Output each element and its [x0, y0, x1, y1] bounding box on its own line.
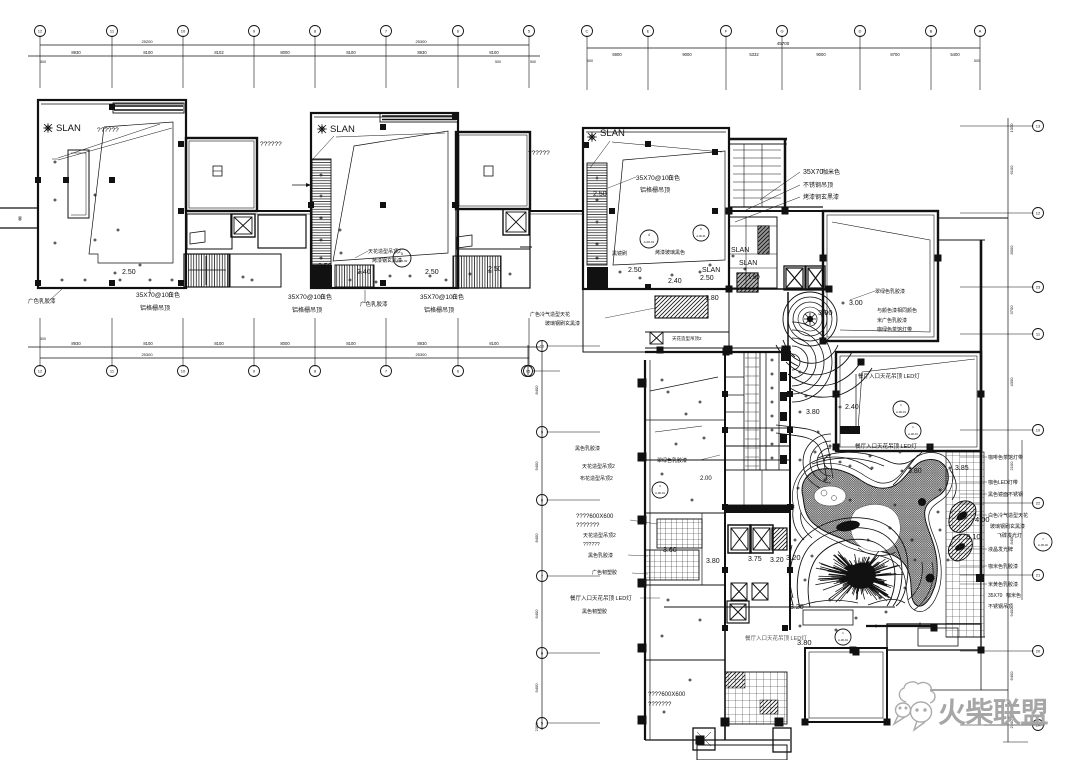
wing top room slant: [650, 377, 718, 391]
svg-text:A-06-01: A-06-01: [908, 432, 918, 436]
svg-text:广色韧塑胶: 广色韧塑胶: [592, 569, 617, 576]
plan3 left hatch strip: [587, 163, 607, 265]
svg-text:8930: 8930: [71, 341, 81, 346]
svg-text:餐厅入口天花吊顶 LED灯: 餐厅入口天花吊顶 LED灯: [855, 442, 917, 450]
right column bubble y126: [1033, 121, 1044, 132]
svg-text:B: B: [930, 29, 933, 34]
dark hatch slim rect: [758, 226, 769, 254]
svg-text:8000: 8000: [1009, 245, 1014, 255]
svg-text:3.00: 3.00: [818, 308, 833, 317]
leaf ornaments right: [948, 501, 975, 561]
svg-text:火柴联盟: 火柴联盟: [938, 697, 1049, 728]
svg-text:白色冷气造型天花: 白色冷气造型天花: [988, 512, 1028, 519]
svg-text:500: 500: [974, 59, 980, 63]
R1 ceiling slant: [832, 222, 930, 332]
grid bubble bottom 6: [381, 366, 392, 377]
left column bubble y432: [537, 427, 548, 438]
transition rooms under plan3: [530, 289, 791, 355]
grid bubble topright 6: [926, 26, 937, 37]
plan3 black base: [587, 267, 608, 289]
plan2 ceiling polygon: [333, 131, 448, 261]
svg-text:6400: 6400: [1009, 671, 1014, 681]
svg-text:2.40: 2.40: [668, 278, 682, 285]
svg-text:??????: ??????: [260, 141, 282, 148]
corridor rooms: [729, 144, 785, 207]
svg-text:2100: 2100: [1009, 461, 1014, 471]
R2 columns: [833, 391, 840, 398]
svg-text:3.80: 3.80: [806, 409, 820, 416]
svg-text:8930: 8930: [71, 50, 81, 55]
contours below starburst: [800, 600, 858, 606]
svg-text:铝格栅吊顶: 铝格栅吊顶: [140, 304, 170, 312]
plan2 bottom hatch areas: [335, 265, 374, 287]
svg-text:黑镜刷: 黑镜刷: [612, 250, 627, 257]
channel black columns: [781, 349, 790, 361]
svg-text:500: 500: [495, 60, 501, 64]
svg-text:5: 5: [401, 252, 403, 256]
svg-text:咖米色: 咖米色: [1006, 592, 1021, 599]
wiggle left of horseshoe: [789, 545, 793, 598]
room R1 top-right: [735, 168, 1008, 366]
svg-text:A-06-01: A-06-01: [644, 240, 655, 244]
svg-text:8100: 8100: [346, 50, 356, 55]
grid bubble topright 1: [582, 26, 593, 37]
contour bands along blob top gap: [812, 458, 884, 466]
plan1 left stub: [0, 207, 38, 209]
svg-text:液晶发光牌: 液晶发光牌: [988, 546, 1013, 553]
right column bubble y430: [1033, 425, 1044, 436]
grid bubble bottom 8: [524, 366, 535, 377]
plan2 SLAN: [317, 124, 327, 134]
lower elevator boxes: [731, 583, 747, 600]
left wing sprinklers: [666, 390, 670, 394]
bottom-right rooms: [664, 607, 985, 726]
dark band: [725, 505, 790, 513]
grid bubble top 5: [310, 26, 321, 37]
right annotation labels: [960, 454, 1052, 610]
svg-text:A-06-01: A-06-01: [896, 410, 906, 414]
svg-text:3.75: 3.75: [748, 556, 762, 563]
svg-text:2.50: 2.50: [593, 191, 607, 198]
blob inner light patch: [814, 486, 846, 506]
svg-text:???????: ???????: [576, 523, 600, 529]
svg-text:A-06-01: A-06-01: [696, 234, 706, 238]
plan3 columns: [583, 142, 589, 148]
svg-text:铝格栅吊顶: 铝格栅吊顶: [292, 306, 322, 314]
svg-text:20: 20: [1036, 649, 1041, 654]
grid bubble topright 4: [777, 26, 788, 37]
plan2 sprinklers: [338, 228, 342, 232]
svg-text:8400: 8400: [534, 385, 539, 395]
svg-text:25300: 25300: [415, 39, 427, 44]
svg-text:咖米色: 咖米色: [822, 168, 840, 176]
mid rooms: [645, 512, 725, 514]
grid bubble top 2: [107, 26, 118, 37]
corridor room box: [729, 217, 777, 288]
bottom wall protrusions: [693, 728, 715, 750]
left column bubble y653: [537, 648, 548, 659]
svg-text:飞碟发光灯: 飞碟发光灯: [997, 532, 1022, 539]
blob white notch: [850, 504, 900, 551]
svg-text:白色: 白色: [668, 174, 680, 182]
svg-text:35X70: 35X70: [803, 169, 823, 176]
svg-text:天花造型吊顶2: 天花造型吊顶2: [368, 248, 401, 255]
annex symbol: [213, 166, 222, 176]
svg-text:3.60: 3.60: [663, 547, 677, 554]
grid bubble bottom 4: [249, 366, 260, 377]
left column bubble y723: [537, 718, 548, 729]
dimension line 25200: [40, 44, 529, 46]
svg-text:布花造型吊顶2: 布花造型吊顶2: [580, 475, 613, 482]
svg-text:6100: 6100: [1009, 165, 1014, 175]
escalator strip: [744, 352, 760, 470]
right column bubble y575: [1033, 570, 1044, 581]
grid bubble top 7: [453, 26, 464, 37]
svg-text:25200: 25200: [141, 39, 153, 44]
R2 ceiling slant: [858, 359, 975, 430]
svg-text:黑色韧塑胶: 黑色韧塑胶: [582, 608, 607, 615]
big blob (stippled amoeba): [802, 459, 948, 606]
grid bubble bottom 3: [178, 366, 189, 377]
svg-text:SLAN: SLAN: [702, 267, 720, 274]
svg-text:白色: 白色: [168, 291, 180, 299]
svg-text:米广色乳胶漆: 米广色乳胶漆: [877, 317, 907, 324]
room R2 right: [833, 352, 985, 451]
svg-text:4: 4: [648, 233, 650, 237]
connectors channel to horseshoe: [793, 505, 804, 540]
svg-text:5400: 5400: [950, 52, 960, 57]
svg-text:12: 12: [38, 369, 43, 374]
svg-text:烤漆钢玄黑漆: 烤漆钢玄黑漆: [803, 193, 839, 201]
svg-text:10: 10: [181, 29, 186, 34]
svg-text:2.50: 2.50: [700, 275, 714, 282]
right column bubble y334: [1033, 329, 1044, 340]
grid bubble bottom 7: [453, 366, 464, 377]
svg-text:2.40: 2.40: [845, 404, 859, 411]
elevator boxes: [731, 528, 748, 550]
svg-text:E: E: [647, 29, 650, 34]
plan1 SLAN marker: [43, 123, 53, 133]
svg-text:铝格栅吊顶: 铝格栅吊顶: [640, 186, 670, 194]
grid bubble top 4: [249, 26, 260, 37]
grid bubble topright 3: [721, 26, 732, 37]
svg-text:2.50: 2.50: [122, 269, 136, 276]
plan3 leader lines: [590, 141, 610, 168]
plan2 annex-bottom rooms: [456, 209, 530, 288]
svg-text:????600X600: ????600X600: [648, 692, 686, 698]
svg-text:8100: 8100: [143, 341, 153, 346]
svg-text:SLAN: SLAN: [600, 128, 625, 139]
svg-text:3.20: 3.20: [786, 553, 801, 562]
plan3 SLAN: [587, 132, 597, 142]
svg-text:天花造型吊顶2: 天花造型吊顶2: [672, 335, 702, 342]
svg-text:SLAN: SLAN: [330, 124, 355, 135]
svg-text:25300: 25300: [141, 352, 153, 357]
plan2 columns: [380, 124, 386, 130]
plan2 top-right strip: [380, 113, 458, 122]
stair arrow: [188, 269, 226, 271]
corridor room mid: [258, 215, 306, 248]
grid bubble top 1: [35, 26, 46, 37]
svg-text:8400: 8400: [534, 533, 539, 543]
plan 3 room outline: [583, 128, 729, 290]
svg-text:2.50: 2.50: [488, 266, 502, 273]
svg-text:天花造型吊顶2: 天花造型吊顶2: [582, 463, 615, 470]
R1 columns: [820, 255, 827, 262]
svg-text:8100: 8100: [214, 341, 224, 346]
concentric circle feature: [783, 292, 837, 346]
plan1 columns: [109, 104, 115, 110]
bottom room below: [697, 745, 787, 760]
grid bubble topright 5: [855, 26, 866, 37]
svg-text:3.20: 3.20: [770, 557, 784, 564]
svg-text:不锈钢吊顶: 不锈钢吊顶: [988, 603, 1013, 610]
svg-text:8000: 8000: [280, 50, 290, 55]
window symbol: [190, 231, 205, 244]
svg-text:500: 500: [40, 337, 46, 341]
svg-text:铝格栅吊顶: 铝格栅吊顶: [424, 306, 454, 314]
svg-text:SLAN: SLAN: [731, 247, 749, 254]
left column bubble y576: [537, 571, 548, 582]
svg-text:A-06-01: A-06-01: [838, 638, 848, 642]
svg-text:3700: 3700: [1009, 305, 1014, 315]
svg-text:8100: 8100: [346, 341, 356, 346]
right wall thick: [980, 240, 983, 582]
plan3 circled ref: [640, 230, 658, 248]
svg-text:D: D: [859, 29, 862, 34]
svg-text:500: 500: [40, 60, 46, 64]
svg-text:白色: 白色: [320, 293, 332, 301]
plan2 black base: [311, 265, 332, 287]
svg-text:8100: 8100: [489, 341, 499, 346]
left column bubble y346: [537, 341, 548, 352]
svg-text:SLAN: SLAN: [56, 123, 81, 134]
plan1 annex room: [186, 138, 257, 211]
svg-text:5332: 5332: [749, 52, 759, 57]
svg-text:咖色LED灯带: 咖色LED灯带: [988, 479, 1018, 486]
svg-text:广色冷气造型天花: 广色冷气造型天花: [530, 311, 570, 318]
corridor ladder rungs: [733, 149, 781, 151]
svg-text:25300: 25300: [415, 352, 427, 357]
svg-text:12: 12: [38, 29, 43, 34]
svg-text:8102: 8102: [214, 50, 224, 55]
svg-text:4300: 4300: [1009, 377, 1014, 387]
svg-text:9000: 9000: [682, 52, 692, 57]
tile grid areas: [657, 519, 702, 548]
organic contour curves: channel arc fans: [776, 322, 956, 610]
svg-text:8100: 8100: [489, 50, 499, 55]
svg-text:3.80: 3.80: [908, 468, 922, 475]
curl right of blob top: [950, 470, 956, 500]
svg-text:不锈钢吊顶: 不锈钢吊顶: [803, 181, 833, 189]
plan2 circled ref: [393, 249, 411, 267]
plan2 corridor right stub: [530, 210, 583, 212]
R1 top-right stubs: [938, 217, 1008, 219]
scattered sprinkler marks center: [793, 370, 950, 632]
svg-text:????600X600: ????600X600: [576, 514, 614, 520]
right column bubble y503: [1033, 498, 1044, 509]
core upper rooms: [725, 376, 744, 378]
svg-text:8000: 8000: [280, 341, 290, 346]
svg-text:与颜色漆相同颜色: 与颜色漆相同颜色: [877, 307, 917, 314]
svg-text:SLAN: SLAN: [739, 260, 757, 267]
svg-text:6400: 6400: [534, 609, 539, 619]
right column bubble y287: [1033, 282, 1044, 293]
svg-text:咖啡色茶馆灯带: 咖啡色茶馆灯带: [988, 454, 1023, 461]
grid bubble top 6: [381, 26, 392, 37]
svg-text:米黄色乳胶漆: 米黄色乳胶漆: [988, 581, 1018, 588]
corridor circled ref: [693, 225, 709, 241]
plan1 top inner line: [41, 103, 183, 105]
black columns: [722, 391, 728, 397]
svg-text:餐厅入口天花吊顶 LED灯: 餐厅入口天花吊顶 LED灯: [745, 634, 807, 642]
svg-text:1.80: 1.80: [705, 295, 719, 302]
svg-text:C: C: [586, 29, 589, 34]
plan2 xbox: [506, 212, 526, 232]
svg-text:22: 22: [1036, 501, 1041, 506]
svg-text:12: 12: [1036, 211, 1041, 216]
svg-text:A-06-01: A-06-01: [655, 491, 665, 495]
svg-text:天花造型吊顶2: 天花造型吊顶2: [583, 532, 616, 539]
plan3 sprinklers: [618, 270, 622, 274]
hatched duct rect: [655, 296, 708, 318]
top thick wall: [729, 138, 787, 141]
svg-text:3.80: 3.80: [706, 558, 720, 565]
svg-text:2.00: 2.00: [700, 476, 712, 482]
grid bubble topright 7: [975, 26, 986, 37]
svg-text:2.50: 2.50: [318, 263, 332, 270]
wing columns: [638, 379, 647, 388]
plan2 leader lines: [312, 136, 334, 160]
svg-text:2.40: 2.40: [357, 269, 371, 276]
svg-text:2.50: 2.50: [425, 269, 439, 276]
svg-text:玻璃钢刷玄黑漆: 玻璃钢刷玄黑漆: [990, 523, 1025, 530]
svg-text:1000: 1000: [1009, 123, 1014, 133]
top xboxes dark: [786, 268, 803, 288]
svg-text:10: 10: [181, 369, 186, 374]
svg-text:烤漆钢玄黑漆: 烤漆钢玄黑漆: [372, 257, 402, 264]
plan1 below-annex rooms: [187, 214, 232, 249]
svg-text:翠绿色乳胶漆: 翠绿色乳胶漆: [875, 288, 905, 295]
xbox small: [650, 332, 663, 344]
plan1 corridor lines: [186, 210, 311, 212]
right thick wall: [784, 139, 787, 207]
svg-text:黑色乳胶漆: 黑色乳胶漆: [575, 445, 600, 452]
left column bubble y500: [537, 495, 548, 506]
plan1 left L-step: [68, 150, 89, 218]
svg-text:G: G: [780, 29, 783, 34]
elevator xbox plan1: [234, 217, 252, 234]
top dimension band right: [582, 26, 986, 91]
starburst enclosing horseshoe contour: [790, 518, 908, 608]
room right of stair: [230, 254, 281, 287]
right column bubble y213: [1033, 208, 1044, 219]
svg-text:500: 500: [587, 59, 593, 63]
plan2 left hatch strip: [312, 159, 331, 265]
inner walls: [645, 331, 729, 333]
blob dark core: [835, 519, 860, 533]
grid bubble bottom 2: [107, 366, 118, 377]
blob contour outlines: [792, 453, 953, 612]
svg-text:翠绿色乳胶漆: 翠绿色乳胶漆: [657, 457, 687, 464]
svg-text:35X70: 35X70: [988, 593, 1003, 599]
top dimension band left: [28, 26, 540, 89]
svg-text:45700: 45700: [777, 41, 790, 46]
bottom tile grid diag: [725, 672, 787, 724]
grid bubble bottom 5: [310, 366, 321, 377]
svg-text:8100: 8100: [143, 50, 153, 55]
starburst: [815, 551, 904, 602]
right tile strip: [946, 452, 984, 637]
dark hatch square: [737, 273, 758, 292]
svg-text:9400: 9400: [534, 461, 539, 471]
misc walls: [729, 206, 823, 208]
svg-text:黑色镜面不锈钢: 黑色镜面不锈钢: [988, 491, 1023, 498]
columns: [726, 208, 733, 215]
right column bubble y725: [1033, 720, 1044, 731]
svg-text:13: 13: [1036, 124, 1041, 129]
svg-text:客: 客: [18, 215, 22, 221]
svg-text:A: A: [979, 29, 982, 34]
corridor block right of plan3: [693, 139, 833, 356]
svg-text:10: 10: [540, 344, 545, 349]
svg-text:8930: 8930: [417, 50, 427, 55]
svg-text:21: 21: [1036, 573, 1041, 578]
svg-text:23: 23: [1036, 285, 1041, 290]
grid bubble top 8: [524, 26, 535, 37]
plan1 ceiling polygon: [89, 122, 173, 263]
plan 1 room outline: [0, 100, 311, 312]
plan1 leader lines: [58, 124, 160, 158]
plan3 ceiling polygon: [613, 151, 725, 265]
grid bubble top 3: [178, 26, 189, 37]
svg-text:白色: 白色: [452, 293, 464, 301]
svg-text:500: 500: [530, 60, 536, 64]
svg-text:???????: ???????: [648, 702, 672, 708]
svg-text:??????: ??????: [528, 150, 550, 157]
svg-text:黑色乳胶漆: 黑色乳胶漆: [588, 552, 613, 559]
spiral arcs below circle: [776, 340, 872, 397]
svg-text:2.50: 2.50: [628, 267, 642, 274]
svg-text:10: 10: [1036, 428, 1041, 433]
grid bubble topright 2: [643, 26, 654, 37]
svg-text:烤漆玻璃黑色: 烤漆玻璃黑色: [655, 249, 685, 256]
svg-text:餐厅入口天花吊顶 LED灯: 餐厅入口天花吊顶 LED灯: [858, 372, 920, 380]
left wing outline: [570, 360, 791, 760]
svg-text:9400: 9400: [534, 683, 539, 693]
right column bubble y651: [1033, 646, 1044, 657]
channel S band: [776, 425, 833, 478]
left vertical dimension column: [522, 340, 601, 731]
svg-text:广色乳胶漆: 广色乳胶漆: [360, 300, 388, 308]
plan2 annex: [456, 132, 530, 209]
plan 2 room outline: [288, 113, 583, 314]
room inner lines: [809, 652, 883, 718]
svg-text:8700: 8700: [890, 52, 900, 57]
watermark logo: two outlined speech bubbles: [894, 682, 935, 730]
right vertical dimension column: [960, 118, 1044, 742]
svg-text:咖绿色茶馆灯带: 咖绿色茶馆灯带: [877, 326, 912, 333]
svg-text:A-06-02: A-06-02: [1038, 543, 1048, 547]
curls right of starburst: [908, 562, 922, 600]
dimension line lower: [28, 55, 540, 57]
plan2 arrow left: [292, 184, 311, 186]
bay inner contour: [858, 548, 896, 555]
svg-text:餐厅入口天花吊顶 LED灯: 餐厅入口天花吊顶 LED灯: [570, 594, 632, 602]
plan1 sprinklers: [53, 160, 57, 164]
elevator core column: [706, 352, 793, 631]
svg-text:1.60: 1.60: [748, 275, 760, 281]
